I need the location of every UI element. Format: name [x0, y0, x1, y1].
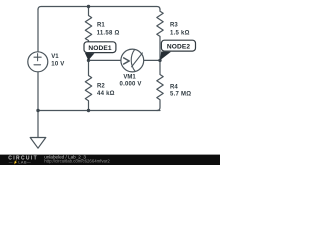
- wire ground stub: [37, 111, 39, 138]
- resistor R2: [85, 60, 91, 110]
- svg-text:0.000 V: 0.000 V: [120, 81, 142, 87]
- voltage source V1: [28, 52, 48, 72]
- svg-text:1.5 kΩ: 1.5 kΩ: [170, 30, 190, 36]
- svg-text:—⚡LAB—: —⚡LAB—: [9, 159, 32, 164]
- svg-text:10 V: 10 V: [51, 61, 64, 67]
- footer bar: [0, 155, 220, 165]
- wire left rail lower: [37, 72, 39, 111]
- svg-text:NODE1: NODE1: [88, 45, 111, 52]
- junction dot bottom of R2: [87, 109, 90, 112]
- svg-text:NODE2: NODE2: [167, 44, 190, 51]
- wire voltmeter right: [144, 59, 160, 61]
- svg-text:http://circuitlab.com/c62664mf: http://circuitlab.com/c62664mfvar2: [44, 159, 110, 164]
- resistor R3: [157, 9, 163, 60]
- svg-text:R4: R4: [170, 84, 178, 90]
- svg-text:R2: R2: [97, 83, 105, 89]
- wire top horizontal: [38, 7, 160, 10]
- wire voltmeter left: [89, 59, 121, 61]
- junction node A (NODE1): [87, 59, 90, 62]
- wire bottom horizontal: [38, 110, 160, 112]
- ground: [30, 138, 46, 149]
- resistor R4: [157, 60, 163, 110]
- junction dot ground corner: [36, 109, 39, 112]
- junction dot top of R1: [87, 5, 90, 8]
- voltmeter VM1: [121, 49, 144, 72]
- svg-text:5.7 MΩ: 5.7 MΩ: [170, 92, 191, 98]
- svg-text:V1: V1: [51, 54, 59, 60]
- junction node B (NODE2): [158, 59, 161, 62]
- svg-text:11.58 Ω: 11.58 Ω: [97, 30, 120, 36]
- svg-text:44 kΩ: 44 kΩ: [97, 91, 115, 97]
- node NODE1 flag: [84, 42, 116, 61]
- wire left rail upper: [37, 9, 39, 52]
- svg-text:VM1: VM1: [123, 75, 136, 81]
- resistor R1: [85, 7, 91, 61]
- svg-text:R3: R3: [170, 22, 178, 28]
- svg-text:R1: R1: [97, 22, 105, 28]
- node NODE2 flag: [160, 40, 196, 60]
